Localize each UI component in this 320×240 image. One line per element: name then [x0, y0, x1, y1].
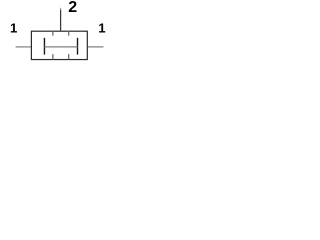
left electrode plate: [43, 38, 45, 55]
svg-text:2: 2: [68, 0, 77, 16]
center electrode line: [44, 46, 77, 48]
wire: left lead of pin 1: [16, 46, 32, 48]
wire: pin 2 lead (top): [60, 10, 62, 31]
top capacitor stub left: [52, 31, 54, 36]
bottom capacitor stub left: [52, 54, 54, 59]
svg-text:1: 1: [10, 20, 17, 35]
bottom capacitor stub right: [68, 54, 70, 59]
resonator case (outer box): [31, 31, 87, 59]
right electrode plate: [77, 38, 79, 55]
svg-text:1: 1: [98, 20, 105, 35]
wire: right lead of pin 1: [87, 46, 103, 48]
top capacitor stub right: [68, 31, 70, 36]
wire: pin 2 lead (top), light tip: [60, 8, 62, 11]
